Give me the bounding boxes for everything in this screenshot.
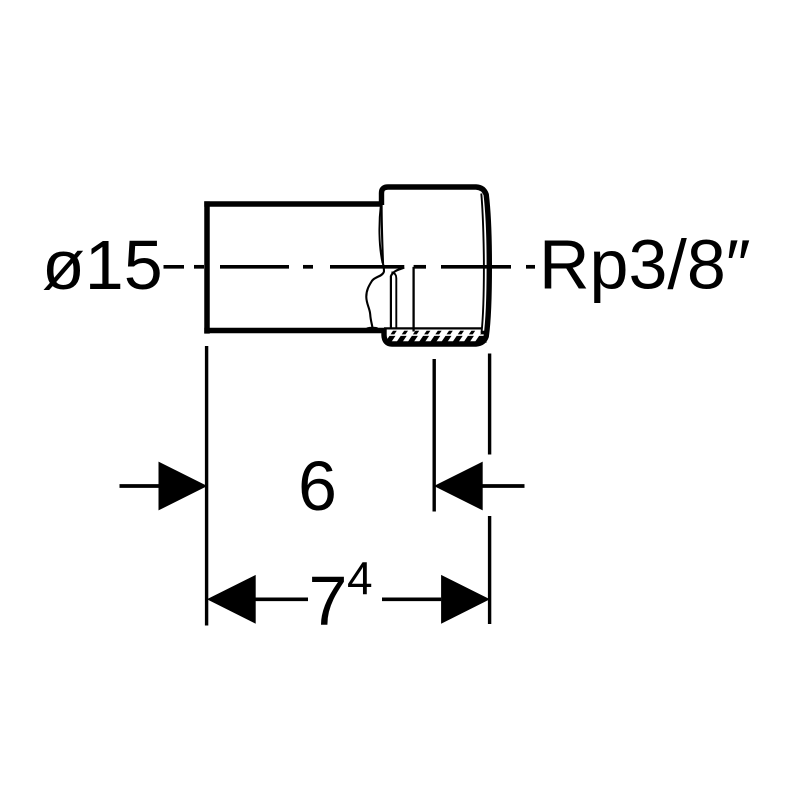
extension line right for dim 6 bbox=[433, 359, 436, 512]
svg-text:7: 7 bbox=[309, 561, 348, 639]
dimension 6: left arrow (outside, pointing right) bbox=[120, 484, 160, 488]
fitting body (socket) outline bbox=[382, 187, 490, 344]
svg-text:6: 6 bbox=[298, 447, 337, 525]
thread band (female thread shown as serrated/hatched section) bbox=[385, 331, 487, 343]
tube wall in section: hook from centerline dash end + two thin verticals bbox=[391, 268, 404, 330]
dimension 6: right arrow (outside, pointing left) bbox=[434, 462, 483, 511]
extension line left (shared) bbox=[205, 346, 208, 626]
thread end inner vertical line bbox=[412, 267, 414, 332]
svg-text:Rp3/8″: Rp3/8″ bbox=[539, 226, 751, 304]
extension line right for dim 7 bbox=[488, 354, 491, 455]
dimension 7: right arrow (inside, pointing right) bbox=[382, 597, 441, 601]
dimension 7: left arrow (inside, pointing left) bbox=[207, 575, 256, 624]
break line foot bbox=[367, 327, 378, 330]
svg-text:ø15: ø15 bbox=[42, 226, 163, 304]
centerline (dash-dot axis) bbox=[164, 265, 536, 269]
svg-text:4: 4 bbox=[347, 552, 373, 604]
inner thin line near right end (chamfer) bbox=[481, 194, 484, 334]
break line (freehand wavy, broken-out section boundary) bbox=[366, 205, 384, 327]
fitting left edge (thin, behind tube) bbox=[379, 206, 382, 264]
bore line above thread band bbox=[384, 327, 482, 329]
tube body (plain end, left cylinder) bbox=[204, 201, 384, 333]
